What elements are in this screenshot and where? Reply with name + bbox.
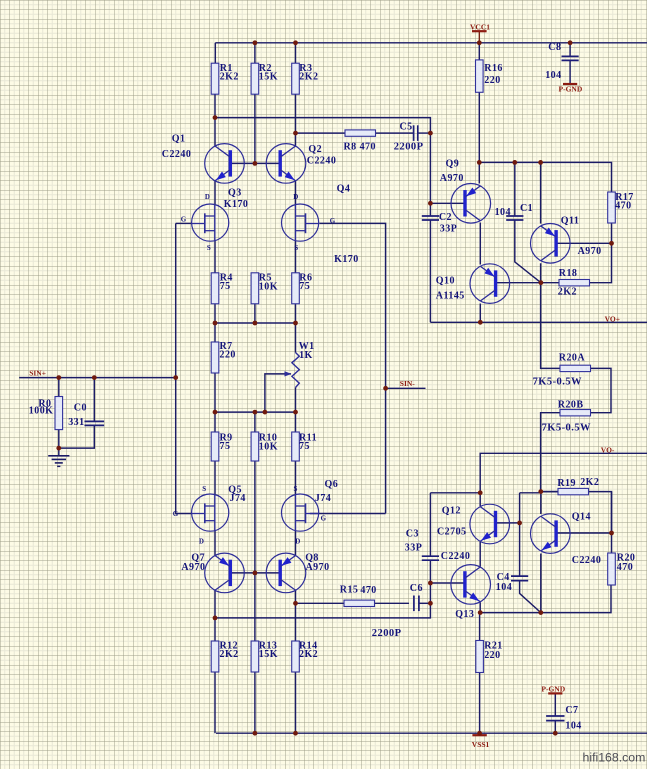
svg-text:331: 331 — [68, 417, 84, 428]
wire R20B left riser — [541, 413, 560, 492]
wire C2 leads — [429, 203, 431, 322]
wire wiper — [265, 374, 291, 412]
svg-text:G: G — [173, 510, 179, 518]
transistor Q13 — [441, 551, 491, 620]
capacitor C8 — [545, 42, 579, 81]
wire Q1 emitter to Q3 drain — [214, 181, 216, 205]
svg-text:C6: C6 — [410, 583, 423, 594]
svg-text:470: 470 — [615, 201, 631, 212]
wire SIN- stub — [386, 387, 426, 389]
wire R5 bottom — [254, 304, 256, 323]
wire R11 bottom to Q6 — [295, 461, 297, 495]
wire VCC1 stub — [478, 32, 480, 43]
wire Q9-Q10 link — [479, 223, 481, 265]
resistor R16 — [476, 60, 503, 92]
wire R16 top lead — [478, 43, 480, 60]
svg-text:J74: J74 — [315, 493, 331, 504]
wire Q4 gate lead — [320, 223, 386, 513]
wire R4 bottom — [214, 304, 216, 323]
wire out node y612 — [480, 585, 611, 613]
wire W1 top lead — [295, 323, 297, 353]
svg-text:C2240: C2240 — [441, 551, 470, 562]
transistor Q7 — [181, 553, 244, 593]
resistor R6 — [292, 272, 313, 304]
transistor Q2 — [266, 144, 336, 184]
wire Q12-Q13 link — [479, 542, 481, 567]
wire R8 node — [296, 132, 346, 134]
wire Q10 base to R18 — [496, 282, 559, 284]
wire C5 to vert — [418, 132, 430, 134]
wire Q5 drain to Q7 emitter — [214, 530, 216, 555]
wire C7 stub top — [554, 693, 556, 716]
resistor R7 — [211, 341, 236, 373]
svg-text:A970: A970 — [181, 562, 205, 573]
wire C4 diag — [520, 581, 541, 613]
wire y162 rail — [479, 162, 611, 192]
capacitor C7 — [546, 705, 582, 732]
svg-text:R16: R16 — [484, 63, 503, 74]
resistor R14 — [292, 640, 318, 672]
wire Q14base col continue — [611, 492, 613, 533]
svg-text:33P: 33P — [440, 224, 457, 235]
wire R21 bottom — [479, 673, 481, 734]
wire R1 bottom to Q1 collector — [214, 94, 216, 146]
power P-GND top — [559, 84, 583, 94]
wire VSS1 stub — [479, 733, 481, 735]
wire bottom bus — [216, 732, 647, 734]
net SIN- — [400, 379, 416, 388]
wire Q8 collector to R14 — [295, 590, 297, 641]
wire R19 left — [541, 491, 558, 493]
resistor R20B — [542, 400, 591, 434]
wire gnd stub — [58, 448, 60, 456]
svg-text:75: 75 — [220, 281, 231, 292]
svg-text:VCC1: VCC1 — [470, 22, 490, 31]
svg-text:2K2: 2K2 — [299, 72, 318, 83]
wire Q6 gate lead — [310, 513, 386, 515]
svg-text:2200P: 2200P — [394, 142, 424, 153]
svg-text:SIN+: SIN+ — [29, 369, 46, 378]
transistor Q9 — [440, 159, 491, 224]
svg-text:Q1: Q1 — [172, 134, 186, 145]
svg-text:S: S — [294, 244, 298, 252]
wire Q7-Q8 base link — [231, 572, 281, 574]
transistor Q12 — [437, 504, 510, 544]
wire Q3 gate lead — [176, 222, 192, 224]
svg-text:G: G — [181, 215, 187, 223]
resistor R8 — [344, 130, 376, 153]
resistor R20A — [533, 353, 591, 388]
wire R2 top lead — [254, 43, 256, 63]
wire C1 lower+diag — [515, 220, 541, 283]
svg-text:220: 220 — [484, 650, 500, 661]
svg-text:Q9: Q9 — [446, 159, 460, 170]
wire R8 to C5 — [376, 132, 414, 134]
capacitor C6 — [372, 583, 423, 639]
svg-text:7K5-0.5W: 7K5-0.5W — [542, 422, 591, 433]
wire Q11 base lead — [556, 242, 611, 244]
svg-text:A970: A970 — [578, 246, 602, 257]
svg-text:Q12: Q12 — [442, 506, 461, 517]
wire W1 bottom lead — [295, 388, 297, 413]
wire VCC bus — [215, 42, 647, 44]
svg-text:A970: A970 — [306, 562, 330, 573]
svg-text:C2: C2 — [439, 212, 452, 223]
svg-text:2K2: 2K2 — [558, 287, 577, 298]
wire Q14 collector — [540, 492, 542, 514]
svg-text:VO-: VO- — [601, 445, 615, 454]
wire R12 bottom — [214, 672, 216, 733]
transistor Q4 — [282, 184, 359, 266]
svg-text:A970: A970 — [440, 173, 464, 184]
svg-text:C5: C5 — [400, 122, 413, 133]
wire R19 right down — [589, 492, 612, 553]
svg-text:15K: 15K — [259, 72, 278, 83]
svg-text:C2705: C2705 — [437, 527, 466, 538]
wire y493 seg1 — [430, 492, 480, 494]
svg-text:D: D — [293, 193, 298, 201]
transistor Q14 — [531, 511, 602, 566]
svg-text:hifi168.com: hifi168.com — [583, 751, 646, 765]
svg-text:A1145: A1145 — [436, 291, 465, 302]
svg-text:33P: 33P — [405, 543, 422, 554]
wire C1 upper lead — [514, 162, 516, 216]
wire R7 leads — [214, 323, 216, 342]
svg-text:S: S — [202, 485, 206, 493]
svg-text:7K5-0.5W: 7K5-0.5W — [533, 376, 582, 387]
wire vert430 to y618 — [215, 583, 430, 618]
power P-GND bottom — [541, 684, 565, 693]
net VO- — [601, 445, 615, 454]
svg-text:S: S — [294, 485, 298, 493]
svg-text:C1: C1 — [520, 203, 533, 214]
wire Q4 source to R6 — [295, 241, 297, 273]
wire Q3 source to R4 — [214, 241, 216, 273]
watermark — [583, 751, 646, 765]
transistor Q6 — [282, 479, 339, 545]
transistor Q3 — [181, 188, 249, 253]
svg-text:J74: J74 — [230, 493, 246, 504]
resistor R4 — [211, 272, 233, 304]
svg-text:2200P: 2200P — [372, 628, 402, 639]
wire R15 to C6 — [375, 602, 410, 604]
wire node wire y117 — [215, 118, 430, 204]
wire Q10 collector — [479, 304, 481, 323]
transistor Q5 — [173, 485, 246, 546]
svg-text:75: 75 — [220, 441, 231, 452]
svg-text:K170: K170 — [224, 199, 249, 210]
wire left input riser — [176, 223, 192, 513]
capacitor C0 — [68, 403, 104, 429]
net SIN+ — [29, 369, 46, 378]
wire base node to R13 — [254, 573, 256, 641]
svg-text:220: 220 — [484, 75, 500, 86]
wire R10 top — [254, 412, 256, 432]
wire VO- rail — [480, 453, 647, 493]
wire C0 bottom — [59, 425, 95, 448]
svg-text:R8 470: R8 470 — [344, 142, 376, 153]
svg-text:R15: R15 — [340, 584, 359, 595]
svg-text:104: 104 — [545, 70, 561, 81]
wire Q14 emitter — [540, 554, 542, 613]
svg-text:1K: 1K — [299, 350, 313, 361]
wire y493 seg2 — [520, 492, 541, 494]
svg-text:Q13: Q13 — [455, 609, 474, 620]
wire Q11 emitter lead — [540, 162, 542, 223]
wire R11 top — [295, 412, 297, 432]
wire R6 bottom — [295, 304, 297, 323]
wire C7 stub bottom — [554, 721, 556, 734]
svg-text:Q4: Q4 — [337, 184, 351, 195]
wire R10 to base node — [254, 461, 256, 573]
power VCC1 — [470, 22, 490, 31]
wire R16 bottom — [478, 92, 480, 183]
resistor R0 — [29, 397, 63, 430]
capacitor C3 — [405, 528, 439, 560]
power VSS1 — [472, 735, 490, 749]
svg-text:VSS1: VSS1 — [472, 740, 490, 749]
svg-text:10K: 10K — [259, 441, 278, 452]
wire R15 node — [296, 602, 345, 604]
svg-text:D: D — [295, 537, 300, 545]
wire SIN+ line — [19, 377, 176, 379]
svg-text:D: D — [205, 193, 210, 201]
capacitor C2 — [422, 212, 457, 235]
svg-text:104: 104 — [495, 207, 511, 218]
svg-text:R20B: R20B — [558, 400, 584, 411]
wire Q12 base lead — [495, 522, 519, 524]
svg-text:2K2: 2K2 — [220, 72, 239, 83]
wire R21 top — [479, 613, 481, 641]
wire R3 top lead — [295, 43, 297, 63]
wire Q12 base col — [519, 493, 521, 576]
svg-text:P-GND: P-GND — [541, 684, 565, 693]
capacitor C5 — [394, 122, 424, 153]
svg-text:75: 75 — [299, 441, 310, 452]
resistor R15 — [340, 584, 377, 606]
svg-text:104: 104 — [496, 582, 512, 593]
wire C3 upper lead — [429, 493, 431, 556]
svg-text:VO+: VO+ — [605, 315, 620, 324]
svg-text:470: 470 — [360, 585, 376, 596]
svg-text:C3: C3 — [406, 528, 419, 539]
ground — [48, 456, 69, 467]
svg-text:2K2: 2K2 — [580, 477, 599, 488]
wire VO+ rail — [430, 321, 647, 323]
wire Q11 collector riser — [541, 263, 560, 368]
transistor Q1 — [162, 134, 244, 184]
svg-text:D: D — [199, 537, 204, 545]
resistor R12 — [211, 640, 238, 672]
svg-text:104: 104 — [565, 720, 581, 731]
wire C8 to pgnd — [569, 60, 571, 83]
svg-text:G: G — [330, 217, 336, 225]
svg-text:470: 470 — [617, 562, 633, 573]
svg-text:R19: R19 — [557, 478, 576, 489]
svg-text:Q10: Q10 — [436, 275, 455, 286]
svg-text:220: 220 — [220, 350, 236, 361]
wire R13 bottom — [254, 672, 256, 733]
wire C6 to vert — [419, 602, 431, 604]
resistor R21 — [476, 641, 503, 673]
wire R14 bottom — [295, 672, 297, 733]
resistor R5 — [251, 272, 278, 304]
svg-text:C2240: C2240 — [307, 155, 336, 166]
svg-text:C7: C7 — [565, 705, 578, 716]
svg-text:75: 75 — [299, 281, 310, 292]
resistor R11 — [292, 432, 317, 461]
svg-text:K170: K170 — [334, 254, 359, 265]
wire C0 top lead — [93, 378, 95, 422]
capacitor C1 — [495, 203, 534, 220]
wire Q6 drain to Q8 emitter — [295, 530, 297, 555]
wire Q7 collector to R12 — [214, 590, 216, 641]
svg-text:2K2: 2K2 — [299, 649, 318, 660]
net VO+ — [605, 315, 620, 324]
resistor R9 — [211, 432, 232, 461]
wire C3 lower lead — [429, 560, 431, 583]
wire Q2 emitter to Q4 drain — [295, 181, 297, 205]
svg-text:Q14: Q14 — [572, 511, 591, 522]
wire Q9 base lead — [430, 202, 465, 204]
resistor R3 — [292, 63, 319, 94]
resistor R17 — [608, 192, 634, 223]
resistor R18 — [558, 268, 590, 297]
svg-text:C8: C8 — [548, 42, 561, 53]
wire R7 bottom — [214, 373, 216, 412]
svg-text:100K: 100K — [29, 406, 54, 417]
resistor R2 — [251, 63, 278, 94]
wire C8 stub — [569, 43, 571, 57]
resistor R13 — [251, 640, 278, 672]
wire R20A right — [590, 368, 611, 412]
wire Q14 base lead — [556, 532, 611, 534]
svg-text:G: G — [321, 514, 327, 522]
wire Q13 emitter — [479, 602, 481, 612]
wire R18 right up — [589, 223, 612, 283]
svg-text:SIN-: SIN- — [400, 379, 416, 388]
svg-text:2K2: 2K2 — [220, 649, 239, 660]
wire R9 bottom to Q5 — [214, 461, 216, 495]
svg-text:C2240: C2240 — [572, 555, 601, 566]
wire R3 bottom to Q2 collector — [295, 94, 297, 146]
svg-text:Q3: Q3 — [228, 188, 242, 199]
wire R0 top lead — [58, 378, 60, 397]
svg-text:Q2: Q2 — [308, 144, 322, 155]
transistor Q11 — [531, 215, 602, 263]
svg-text:Q11: Q11 — [561, 215, 580, 226]
resistor R19 — [557, 477, 599, 495]
wire R1 top lead — [214, 43, 216, 63]
svg-text:C0: C0 — [74, 403, 87, 414]
potentiometer W1 — [285, 341, 315, 387]
resistor R1 — [211, 63, 239, 94]
transistor Q10 — [436, 264, 510, 304]
resistor R10 — [251, 432, 278, 461]
wire Q12 collector — [479, 493, 481, 506]
svg-text:15K: 15K — [259, 649, 278, 660]
wire R9 top — [214, 412, 216, 432]
svg-text:Q6: Q6 — [325, 479, 339, 490]
svg-text:S: S — [207, 244, 211, 252]
svg-text:C2240: C2240 — [162, 149, 191, 160]
wire R0 bottom — [58, 430, 60, 449]
svg-text:10K: 10K — [259, 282, 278, 293]
svg-text:R18: R18 — [559, 268, 578, 279]
svg-text:P-GND: P-GND — [559, 85, 583, 94]
svg-text:R20A: R20A — [559, 353, 586, 364]
capacitor C4 — [496, 572, 528, 593]
wire R4R5R6 bottom bus — [215, 322, 296, 324]
wire mid bus y412 — [215, 411, 296, 413]
wire R2 bottom to base node — [254, 94, 256, 164]
wire Q1-Q2 base link — [231, 162, 281, 164]
resistor R20 — [608, 553, 636, 585]
wire Q13 base lead — [430, 582, 465, 584]
transistor Q8 — [266, 553, 329, 593]
